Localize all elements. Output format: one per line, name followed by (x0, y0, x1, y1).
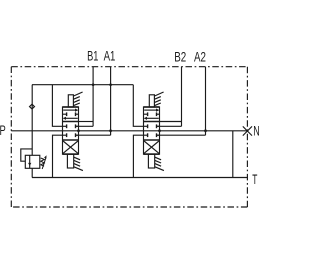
directional valve V1 body (63, 107, 79, 154)
relief valve RV1 adjustment arrow (42, 158, 46, 169)
valve V2 position separator 2 (144, 139, 160, 141)
valve V1 box1 arrow left (65, 117, 77, 119)
wire carryover top run (32, 84, 133, 86)
valve V2 box1 arrow right (144, 109, 156, 111)
valve V2 body top/bottom edges (144, 106, 160, 108)
valve V2 bottom stem (148, 154, 154, 168)
svg-text:A2: A2 (194, 49, 206, 65)
valve V1 bottom stem (67, 154, 73, 168)
valve V2 box2 blocked port right-top (157, 125, 160, 127)
wire B1 riser (92, 67, 94, 127)
junction B1-carryover (92, 83, 95, 86)
orifice/filter diamond D1 (30, 104, 35, 109)
valve V1 top stem (68, 95, 73, 107)
enclosure dash-dot boundary (11, 67, 247, 207)
valve V1 position separator 2 (63, 139, 79, 141)
svg-text:N: N (253, 124, 259, 139)
valve V1 body top/bottom edges (63, 106, 79, 108)
wire valve1 inlet riser (52, 85, 62, 127)
valve V2 box2 blocked port right-bottom (157, 134, 160, 136)
valve V1 box2 blocked port left-top (63, 125, 67, 127)
wire valve2 inlet riser (133, 85, 143, 127)
valve V2 top spring (155, 92, 164, 106)
valve V1 box3 crossed passages (63, 141, 78, 153)
valve V1 position separator 1 (63, 121, 79, 123)
valve V1 top spring (74, 92, 83, 106)
junction A1-main line (109, 129, 112, 132)
wire P supply / open-center carryover line (11, 130, 247, 132)
valve V2 bottom spring (155, 157, 164, 170)
junction A1-carryover (109, 83, 112, 86)
valve V1 box2 blocked port right-bottom (76, 134, 79, 136)
relief valve RV1 pilot line (21, 149, 32, 161)
valve V1 bottom spring (74, 157, 83, 170)
wire relief valve to tank (31, 168, 33, 177)
wire A1 link to bottom port (76, 134, 111, 136)
wire B1 link lower (76, 125, 94, 127)
valve V1 box2 blocked port right-top (76, 125, 79, 127)
valve V1 box1 blocked ports (63, 113, 67, 115)
power-beyond plug N (closed port X) (243, 126, 252, 135)
directional valve V2 body (144, 107, 160, 154)
wire B2 link upper (160, 121, 182, 123)
wire A2 riser (205, 67, 207, 136)
wire A1 riser (110, 67, 112, 136)
valve V2 top stem (149, 95, 154, 107)
svg-text:B2: B2 (174, 49, 186, 65)
junction V2 outlet (158, 129, 161, 132)
junction A2-main line (204, 129, 207, 132)
relief valve RV1 flow arrow (29, 155, 31, 168)
relief valve RV1 spring (41, 158, 45, 166)
valve V1 box2 blocked port left-bottom (63, 134, 67, 136)
wire B2 riser (181, 67, 183, 127)
junction V1 outlet (77, 129, 80, 132)
valve V2 box2 blocked port left-top (144, 125, 148, 127)
wire tank return line (32, 177, 247, 179)
wire valve2 bottom-left port to tank (133, 135, 143, 177)
relief valve RV1 body (25, 155, 40, 168)
svg-text:A1: A1 (104, 47, 116, 63)
valve V2 box1 arrow left (146, 117, 158, 119)
valve V2 position separator 1 (144, 121, 160, 123)
svg-text:P: P (0, 122, 6, 138)
wire riser from P to carryover and down to relief valve (31, 85, 33, 156)
wire B1 link upper (79, 121, 94, 123)
wire valve1 bottom-left port to tank (53, 135, 63, 177)
wire open-center drop to tank (232, 131, 234, 178)
wire B2 link lower (157, 125, 182, 127)
valve V1 box1 arrow right (63, 109, 75, 111)
valve V2 box1 blocked ports (144, 113, 148, 115)
valve V2 box3 crossed passages (144, 141, 159, 153)
wire A2 link to bottom port (157, 134, 206, 136)
svg-text:B1: B1 (87, 47, 99, 64)
valve V2 box2 blocked port left-bottom (144, 134, 148, 136)
svg-text:T: T (252, 173, 257, 188)
